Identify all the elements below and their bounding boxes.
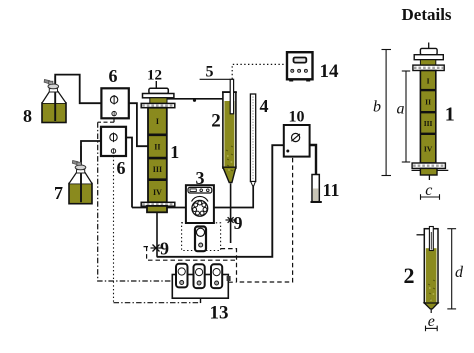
svg-text:IV: IV (424, 145, 433, 154)
svg-text:2: 2 (211, 111, 221, 132)
wire bottle8 to pump6a (55, 75, 101, 104)
wire column drain down (156, 212, 158, 256)
pump 3 (peristaltic) (186, 185, 214, 223)
gas sampling bottles 13 (172, 264, 230, 303)
svg-text:I: I (156, 117, 159, 126)
svg-text:II: II (425, 98, 431, 107)
svg-text:c: c (425, 182, 432, 199)
svg-text:II: II (154, 143, 160, 152)
probe 11 (311, 175, 322, 203)
wire bottom feed/recirculation line behind column stub (132, 207, 186, 209)
wire dashed gas line from flow-cell box to meter 10 (221, 157, 293, 282)
svg-text:6: 6 (109, 66, 118, 86)
wire 13 right port to dashed line (228, 281, 236, 283)
wire dash-dot gas line to bottle 13 left port (98, 122, 173, 281)
svg-text:9: 9 (160, 239, 169, 259)
flow cell below pump 3 (195, 227, 206, 252)
wire pump6b outlet down to column bottom feed (126, 138, 132, 208)
svg-text:4: 4 (260, 96, 269, 116)
wire dashed vent line parallel to bus (144, 247, 237, 261)
wire pump6a outlet to column port (129, 103, 148, 146)
svg-text:1: 1 (170, 142, 179, 162)
svg-text:III: III (424, 119, 433, 128)
svg-text:Details: Details (402, 5, 452, 24)
valve 9 (tube 2 drain) (226, 217, 236, 223)
svg-text:b: b (373, 99, 381, 116)
svg-text:e: e (428, 313, 435, 330)
svg-text:6: 6 (117, 158, 126, 178)
pump 6 lower (101, 127, 126, 156)
svg-text:1: 1 (445, 104, 455, 126)
bottle 7 (69, 146, 92, 204)
svg-text:III: III (153, 165, 162, 174)
pH meter 14 (287, 52, 313, 81)
detail tube 2 (417, 227, 439, 314)
tube 4 (measuring column) (250, 94, 255, 186)
meter 10 (284, 125, 310, 157)
svg-text:5: 5 (206, 64, 214, 81)
column 1 top tick to label 12 (155, 81, 157, 89)
wire dash-dot line under bottles 13 (114, 302, 201, 304)
svg-text:10: 10 (289, 109, 305, 126)
svg-text:IV: IV (153, 188, 162, 197)
column 1 (141, 88, 175, 212)
valve 9 (column drain) (151, 245, 162, 252)
svg-text:11: 11 (323, 180, 340, 200)
dotted box around flow cell (182, 223, 221, 251)
dimension d (447, 229, 456, 309)
node on overflow line (193, 99, 196, 102)
bottle 8 (42, 76, 66, 123)
svg-text:I: I (427, 77, 430, 86)
wire tube 4 drain to pump 3 (214, 186, 253, 208)
svg-text:13: 13 (210, 303, 229, 324)
dimension a (402, 71, 410, 162)
wire tube 2 drain (230, 184, 232, 244)
svg-text:3: 3 (196, 168, 205, 188)
svg-text:2: 2 (404, 263, 415, 288)
svg-text:8: 8 (23, 106, 32, 126)
detail column 1 (412, 43, 449, 181)
dimension e (426, 326, 438, 332)
svg-text:7: 7 (54, 183, 63, 203)
pump 6 upper (101, 88, 128, 118)
electrode 5 in tube 2 (230, 79, 233, 114)
wire solid drain bus (157, 145, 284, 257)
tube 2 (222, 92, 237, 183)
wire pump6a gas port to dash-dot line (113, 118, 115, 122)
wire bottle7 to pump6b (81, 141, 101, 146)
svg-text:d: d (455, 264, 464, 281)
svg-text:9: 9 (234, 213, 243, 233)
wire column top overflow to tube 2 (167, 98, 223, 100)
svg-text:12: 12 (147, 68, 162, 84)
svg-text:14: 14 (320, 61, 340, 82)
wire meter 10 to probe 11 (310, 145, 316, 175)
wire dotted sample line from pump6b down (113, 156, 115, 303)
dimension c (421, 194, 440, 200)
svg-text:a: a (397, 101, 405, 118)
wire dotted signal line electrode 5 to meter 14 (232, 64, 287, 79)
label 5 pointer line (200, 78, 231, 80)
dimension b (382, 50, 392, 176)
